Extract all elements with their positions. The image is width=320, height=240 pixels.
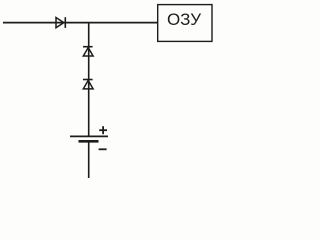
svg-text:ОЗУ: ОЗУ xyxy=(167,10,201,29)
